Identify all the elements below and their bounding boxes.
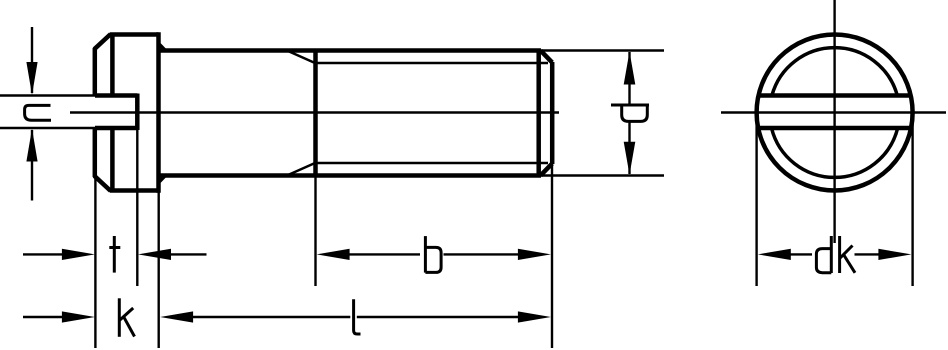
- thread root lines: [315, 63, 548, 163]
- inner circle bottom arc: [772, 128, 898, 177]
- label k: [119, 298, 134, 337]
- dimension n arrows: [26, 27, 37, 201]
- dimension d extension lines: [541, 51, 664, 176]
- dimension dk: [758, 249, 912, 260]
- end chamfer top: [541, 51, 553, 63]
- dimension d arrows: [624, 52, 636, 175]
- shank outline: [159, 51, 542, 176]
- circle vertical centerline: [833, 0, 835, 243]
- fillet head-shank bottom: [160, 176, 165, 182]
- fillet head-shank top: [160, 45, 165, 51]
- dimension l: [160, 311, 551, 322]
- outer circle head: [757, 35, 913, 191]
- dimension t: [23, 249, 207, 260]
- dimension k: [23, 311, 95, 322]
- extension line screw end: [551, 164, 553, 348]
- circle horizontal centerline: [721, 111, 946, 113]
- slot end view top edge: [758, 93, 912, 98]
- label t: [109, 236, 120, 273]
- thread runout diagonals: [288, 51, 315, 175]
- label d rotated: [611, 105, 649, 121]
- end face: [550, 62, 555, 164]
- extension line slot bottom: [136, 128, 138, 286]
- label n rotated: [25, 105, 51, 120]
- label b: [425, 236, 441, 273]
- dimension b: [317, 249, 551, 260]
- label l: [354, 299, 361, 334]
- extension line head right face: [157, 191, 159, 349]
- centerline side view: [70, 111, 559, 113]
- slot width extension lines: [0, 96, 95, 129]
- extension line head left face: [94, 178, 96, 348]
- head chamfer boundary line: [110, 35, 115, 191]
- dk extension line left: [755, 113, 757, 286]
- slot side view: [95, 94, 137, 131]
- label dk: [816, 236, 855, 273]
- slot end view bottom edge: [757, 126, 912, 131]
- extension line thread start: [314, 176, 316, 287]
- inner circle top arc: [772, 48, 897, 96]
- head outline: [94, 32, 158, 193]
- end of thread line: [536, 51, 541, 176]
- full thread boundary line: [313, 51, 318, 176]
- dk extension line right: [911, 113, 913, 286]
- end chamfer bottom: [541, 164, 553, 176]
